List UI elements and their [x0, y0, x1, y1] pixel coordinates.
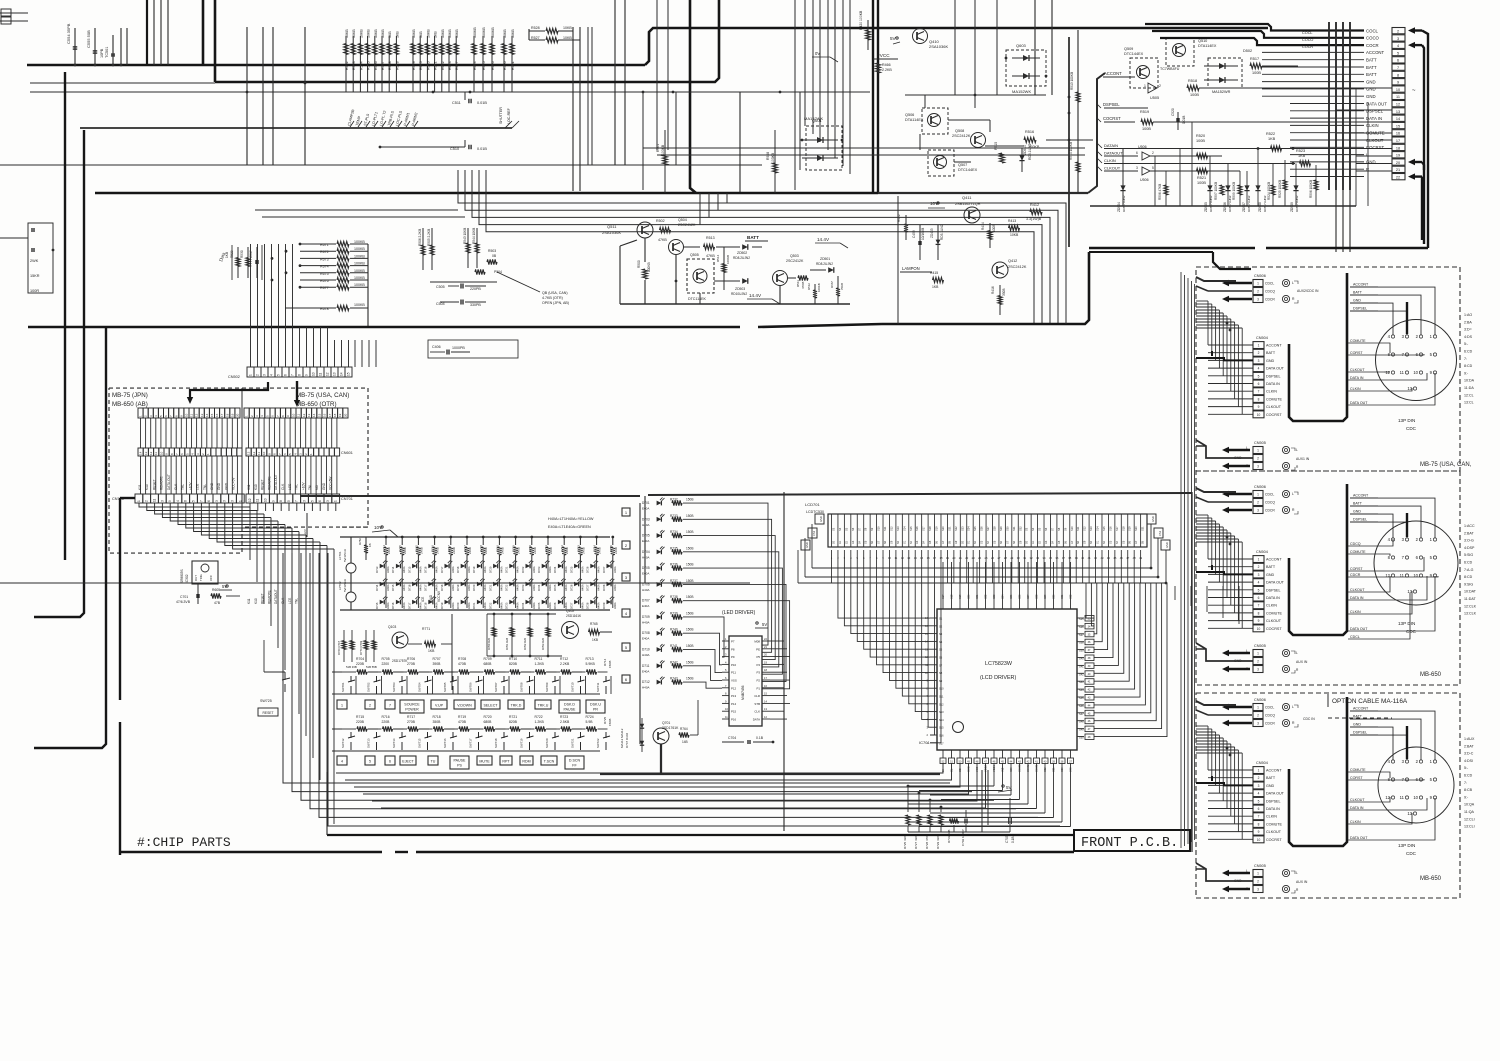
svg-text:R742: R742: [670, 660, 678, 664]
svg-text:H40A: H40A: [642, 686, 650, 690]
svg-text:2: 2: [1257, 660, 1259, 664]
svg-text:3: 3: [1258, 784, 1260, 788]
svg-text:GND: GND: [1366, 79, 1376, 84]
svg-text:S43: S43: [1079, 680, 1084, 684]
svg-text:C505: C505: [436, 285, 445, 289]
svg-text:D722: D722: [488, 602, 492, 609]
svg-text:S27: S27: [1027, 594, 1030, 599]
svg-text:47KB: 47KB: [706, 254, 715, 258]
svg-text:3: 3: [231, 500, 235, 502]
wire thick L x1089: [882, 252, 1089, 324]
svg-text:240B: 240B: [565, 547, 569, 554]
arrow into pin 4: [1413, 44, 1422, 46]
dashed panel border 2: [1196, 471, 1460, 685]
resistor R529 1KB vertical: [237, 247, 239, 278]
svg-text:COCR: COCR: [1366, 43, 1379, 48]
svg-text:COMUTE: COMUTE: [1266, 611, 1283, 615]
svg-text:VCC: VCC: [209, 575, 213, 581]
svg-text:220B: 220B: [382, 720, 391, 724]
svg-text:R626: R626: [491, 61, 495, 70]
svg-text:10: 10: [264, 498, 268, 502]
svg-text:Q411: Q411: [962, 195, 972, 200]
svg-text:CLKIN: CLKIN: [1266, 815, 1277, 819]
svg-text:VSS: VSS: [731, 679, 737, 683]
resistor column R506 R505 2.2KB: [422, 228, 424, 270]
svg-text:3: 3: [326, 500, 330, 502]
svg-text:SELECT: SELECT: [484, 704, 499, 708]
arrow CN505 L: [1227, 449, 1250, 451]
wire sweep bundle y203-237: [458, 170, 1066, 323]
svg-text:7:A-G: 7:A-G: [1464, 568, 1474, 572]
svg-text:DATA OUT: DATA OUT: [1366, 101, 1387, 106]
wire vertical x740: [739, 92, 741, 192]
resistor R596 47KB: [1164, 185, 1168, 195]
svg-text:H40A: H40A: [532, 602, 536, 609]
svg-text:OPTION CABLE MA-116A: OPTION CABLE MA-116A: [1332, 698, 1408, 705]
svg-text:R712: R712: [560, 657, 568, 661]
svg-text:CLKOUT: CLKOUT: [1350, 798, 1365, 802]
svg-text:20: 20: [343, 413, 347, 417]
svg-text:S14: S14: [1096, 526, 1100, 531]
svg-text:150B: 150B: [686, 660, 693, 664]
svg-text:R771: R771: [422, 627, 430, 631]
svg-text:5: 5: [1258, 374, 1260, 378]
svg-text:C510: C510: [450, 147, 459, 151]
row select squares 1-6: [622, 508, 630, 516]
svg-text:D726: D726: [553, 602, 557, 609]
svg-text:S7: S7: [857, 527, 861, 531]
wire DIN top feeds: [1378, 287, 1435, 335]
svg-text:CDC: CDC: [1406, 426, 1417, 431]
svg-text:P14: P14: [731, 702, 737, 706]
svg-text:4:DS: 4:DS: [1464, 335, 1473, 339]
svg-text:H40A=LT1H40A=YELLOW: H40A=LT1H40A=YELLOW: [548, 517, 594, 521]
svg-text:C453: C453: [912, 230, 916, 238]
svg-text:1KB: 1KB: [395, 31, 399, 38]
svg-text:H40A: H40A: [613, 584, 617, 591]
svg-text:Q504: Q504: [678, 218, 687, 222]
svg-text:2: 2: [145, 500, 149, 502]
resistor R422 100KB vertical: [905, 215, 907, 240]
zener ZD510: [1021, 148, 1023, 172]
svg-text:9: 9: [305, 374, 309, 376]
svg-text:350B: 350B: [433, 720, 442, 724]
wire LED bottom rail: [340, 609, 610, 611]
svg-text:1:AO: 1:AO: [1464, 313, 1472, 317]
arrow CN505 L: [1227, 652, 1250, 654]
svg-text:1KB: 1KB: [434, 31, 438, 38]
svg-text:S17: S17: [942, 594, 945, 599]
svg-text:47/6.3VB: 47/6.3VB: [176, 600, 191, 604]
zener ZD501: [810, 269, 826, 271]
svg-text:11: 11: [190, 414, 194, 417]
resistor mid row DATAIN: [1197, 153, 1208, 158]
svg-text:240B: 240B: [403, 547, 407, 554]
svg-text:5V: 5V: [222, 584, 227, 589]
svg-text:R554: R554: [359, 61, 363, 70]
transistor Q410: [913, 29, 928, 44]
svg-text:DSPSEL: DSPSEL: [1353, 731, 1367, 735]
wire Q102 Q103 row: [408, 643, 422, 645]
svg-text:Q509: Q509: [1124, 47, 1133, 51]
svg-text:2:BA: 2:BA: [1464, 320, 1472, 324]
svg-text:EJECT: EJECT: [402, 760, 414, 764]
svg-text:11: 11: [319, 372, 323, 376]
svg-text:R707: R707: [433, 657, 441, 661]
svg-text:5: 5: [287, 500, 291, 502]
svg-text:U2V: U2V: [303, 529, 307, 535]
svg-text:S26: S26: [1019, 594, 1022, 599]
label 5V: [896, 37, 898, 39]
svg-text:1: 1: [1257, 872, 1259, 876]
transistor Q509 DTC144EX: [1130, 58, 1158, 88]
IC IC701 LC75823W chip body: [937, 609, 1077, 750]
svg-text:240B: 240B: [614, 547, 618, 554]
svg-text:S22: S22: [954, 526, 958, 531]
svg-text:S15: S15: [909, 526, 913, 531]
svg-text:U506: U506: [1140, 178, 1149, 182]
connector strip CN601 left: [138, 448, 143, 456]
svg-text:R749: R749: [512, 545, 516, 552]
svg-text:P10: P10: [731, 663, 737, 667]
wire verticals x643-676: [642, 92, 644, 190]
svg-text:TU: TU: [431, 760, 436, 764]
svg-text:9:SIG: 9:SIG: [1464, 582, 1473, 586]
svg-text:P2: P2: [756, 679, 760, 683]
svg-text:R552: R552: [345, 61, 349, 70]
wire thick cable outline: [1289, 484, 1347, 635]
wire CN504 left bundle: [1207, 301, 1209, 345]
svg-text:SW708: SW708: [520, 682, 524, 692]
svg-text:R719: R719: [458, 715, 466, 719]
svg-text:U506: U506: [1138, 145, 1147, 149]
svg-text:C511: C511: [452, 101, 461, 105]
svg-text:R413: R413: [1008, 219, 1016, 223]
svg-text:SW709: SW709: [545, 682, 549, 692]
svg-text:ACCONT: ACCONT: [1266, 558, 1282, 562]
transistor Q411 2SB1102TLQR: [964, 207, 980, 223]
svg-text:7: 7: [1258, 390, 1260, 394]
svg-text:S10: S10: [1070, 526, 1074, 531]
svg-text:BATT: BATT: [1353, 502, 1363, 506]
svg-text:820B: 820B: [509, 720, 518, 724]
svg-text:D703: D703: [642, 517, 650, 521]
transistor Q103: [392, 632, 408, 648]
svg-text:R713: R713: [586, 657, 594, 661]
svg-text:15: 15: [210, 413, 214, 417]
svg-text:LCDTC530: LCDTC530: [806, 510, 824, 514]
svg-text:2: 2: [1258, 776, 1260, 780]
svg-text:MD: MD: [315, 484, 319, 490]
svg-text:MB-650: MB-650: [1420, 876, 1442, 882]
svg-text:H40A: H40A: [386, 584, 390, 591]
svg-text:D701: D701: [642, 501, 650, 505]
svg-text:R622: R622: [441, 61, 445, 70]
svg-text:7: 7: [1397, 66, 1399, 70]
svg-text:11: 11: [257, 452, 261, 455]
capacitor C504 330PB: [460, 300, 462, 305]
svg-text:13: 13: [247, 451, 251, 455]
svg-text:R500: R500: [637, 260, 641, 268]
svg-text:DATA OUT: DATA OUT: [1266, 581, 1285, 585]
svg-text:11:QA: 11:QA: [1464, 810, 1475, 814]
wire thick cable outline: [1289, 697, 1347, 846]
wire panel feed vertical bundle: [1180, 272, 1182, 848]
svg-text:D717: D717: [440, 566, 444, 573]
svg-text:240B: 240B: [598, 547, 602, 554]
svg-text:Q507: Q507: [958, 163, 967, 167]
svg-text:2: 2: [1257, 880, 1259, 884]
svg-text:ZD502: ZD502: [737, 251, 747, 255]
svg-text:47B: 47B: [214, 601, 221, 605]
wire signal bus collector: [1088, 73, 1105, 193]
svg-text:R412: R412: [1030, 203, 1039, 207]
wire GND rails under strip: [812, 567, 1151, 569]
svg-text:R724: R724: [586, 715, 594, 719]
svg-text:5: 5: [1397, 51, 1399, 55]
svg-text:S23: S23: [960, 526, 964, 531]
svg-text:D723: D723: [521, 584, 525, 591]
wire bundle verticals x805-860: [804, 0, 806, 126]
svg-text:CN505: CN505: [1254, 441, 1266, 445]
svg-text:R721: R721: [509, 715, 517, 719]
svg-text:2: 2: [1258, 565, 1260, 569]
svg-text:AUX1 IN: AUX1 IN: [1296, 457, 1310, 461]
svg-text:RD10UJN2: RD10UJN2: [731, 292, 747, 296]
svg-text:15KB: 15KB: [608, 661, 612, 668]
resistor R518 100B: [1187, 85, 1199, 90]
svg-text:H40A: H40A: [642, 523, 650, 527]
svg-text:MB-650 (AB): MB-650 (AB): [112, 401, 148, 408]
svg-text:H40A: H40A: [483, 602, 487, 609]
svg-text:12: 12: [302, 413, 306, 417]
svg-text:C705: C705: [1005, 835, 1009, 843]
svg-text:7: 7: [291, 374, 295, 376]
svg-text:R720: R720: [484, 715, 492, 719]
svg-text:10KB: 10KB: [426, 29, 430, 38]
svg-text:13:CLK: 13:CLK: [1464, 612, 1477, 616]
svg-text:S42: S42: [1079, 672, 1084, 676]
svg-text:103KB: 103KB: [771, 152, 775, 163]
wire U701 right fan: [770, 640, 784, 642]
svg-text:R617: R617: [455, 61, 459, 70]
FRONT PCB box: [1074, 830, 1190, 851]
svg-text:D724: D724: [521, 602, 525, 609]
svg-text:H40A: H40A: [516, 584, 520, 591]
buffer U506 b: [1142, 167, 1150, 175]
resistor R514 100KB vertical: [723, 247, 725, 290]
svg-text:LC75823W: LC75823W: [985, 661, 1013, 667]
svg-text:T.SCN: T.SCN: [544, 760, 555, 764]
wire verticals x615-625: [614, 0, 616, 165]
svg-text:ACCONT: ACCONT: [1104, 71, 1122, 76]
svg-text:R543 10KB: R543 10KB: [463, 228, 467, 244]
resistor R515: [1000, 153, 1005, 163]
svg-text:S16: S16: [939, 734, 944, 738]
svg-text:K10: K10: [145, 484, 149, 490]
svg-text:H40A: H40A: [516, 602, 520, 609]
svg-text:6: 6: [284, 374, 288, 376]
svg-text:CDCL: CDCL: [1265, 282, 1274, 286]
svg-text:390B: 390B: [433, 662, 442, 666]
svg-text:P12: P12: [731, 686, 737, 690]
label 5V U701: [756, 622, 758, 624]
capacitor C704: [722, 741, 744, 743]
svg-text:S8: S8: [864, 527, 868, 531]
wire strip interconnect verticals left: [140, 418, 142, 448]
svg-text:2: 2: [1257, 714, 1259, 718]
svg-text:CN502: CN502: [228, 375, 240, 379]
svg-text:1.2KB: 1.2KB: [535, 720, 545, 724]
svg-text:9: 9: [1258, 830, 1260, 834]
svg-text:10KB: 10KB: [412, 29, 416, 38]
wire DIN top feeds: [1378, 711, 1435, 760]
capacitor C555: [94, 28, 96, 65]
svg-text:S27: S27: [986, 526, 990, 531]
svg-text:R747: R747: [447, 545, 451, 552]
svg-text:H40A: H40A: [418, 566, 422, 573]
resistor R733: [950, 818, 959, 823]
svg-text:11: 11: [256, 498, 260, 502]
resistor R501 100KB vertical: [664, 130, 666, 193]
svg-text:AUX IN: AUX IN: [1296, 880, 1308, 884]
capacitor TC501: [112, 35, 114, 65]
svg-text:S28: S28: [993, 526, 997, 531]
svg-text:GND: GND: [819, 516, 823, 522]
RCA jacks CDC IN: [1282, 279, 1289, 286]
resistor R511 47KB: [788, 277, 796, 279]
svg-text:H40A: H40A: [564, 584, 568, 591]
svg-text:1: 1: [1257, 652, 1259, 656]
svg-text:7: 7: [1258, 815, 1260, 819]
svg-text:CLKIN: CLKIN: [1350, 610, 1361, 614]
svg-text:REMOTE: REMOTE: [160, 476, 164, 490]
svg-text:SW722: SW722: [596, 738, 600, 748]
svg-text:S14: S14: [902, 526, 906, 531]
svg-text:12:CL: 12:CL: [1464, 393, 1474, 397]
svg-text:D709: D709: [642, 615, 650, 619]
svg-text:TNL: TNL: [203, 484, 207, 490]
svg-text:R716: R716: [382, 715, 390, 719]
svg-text:D710: D710: [642, 648, 650, 652]
svg-text:H40A: H40A: [642, 653, 650, 657]
transistor Q510 DTA114EX: [1166, 38, 1194, 66]
svg-text:10V: 10V: [374, 525, 383, 530]
svg-text:100KB: 100KB: [354, 269, 365, 273]
IC302 SR8805S: [192, 561, 218, 584]
svg-text:10/16VB: 10/16VB: [921, 228, 925, 240]
svg-text:2SC2412K: 2SC2412K: [678, 223, 696, 227]
svg-text:R524 100KB: R524 100KB: [1267, 182, 1271, 200]
resistor R516 100KB: [1024, 137, 1036, 142]
capacitor C505 220PB: [460, 284, 462, 289]
svg-text:S14: S14: [939, 718, 944, 722]
svg-text:2SD1757K: 2SD1757K: [392, 659, 408, 663]
svg-text:R525 100KB: R525 100KB: [1278, 180, 1282, 198]
svg-text:R709: R709: [484, 657, 492, 661]
svg-text:R557: R557: [381, 61, 385, 70]
label QB note: [497, 272, 540, 292]
svg-text:1000PB: 1000PB: [452, 346, 465, 350]
zener ZD503: [714, 280, 740, 282]
svg-text:H40A: H40A: [402, 602, 406, 609]
svg-text:240B: 240B: [387, 547, 391, 554]
svg-text:H40A: H40A: [642, 620, 650, 624]
svg-text:2SD1761K: 2SD1761K: [662, 726, 679, 730]
resistor R530 1KB vertical: [247, 247, 249, 278]
svg-text:2SC2412K: 2SC2412K: [786, 259, 804, 263]
svg-text:100B: 100B: [992, 225, 996, 232]
svg-text:14.4V: 14.4V: [749, 293, 762, 298]
svg-text:220PB: 220PB: [470, 287, 481, 291]
svg-text:3:D-C: 3:D-C: [1464, 752, 1474, 756]
svg-text:H40A: H40A: [402, 584, 406, 591]
svg-text:8:CD: 8:CD: [1464, 364, 1473, 368]
svg-text:C701: C701: [180, 595, 188, 599]
svg-text:GND: GND: [1151, 516, 1155, 522]
svg-text:D725: D725: [569, 566, 573, 573]
wire CN505 thick stubs: [1196, 648, 1206, 650]
svg-text:R422: R422: [897, 214, 901, 222]
svg-text:TC7WB4FU: TC7WB4FU: [1160, 67, 1180, 71]
svg-text:D725: D725: [553, 584, 557, 591]
svg-text:DATA OUT: DATA OUT: [1266, 367, 1285, 371]
svg-text:11: 11: [297, 414, 301, 417]
svg-text:19: 19: [230, 413, 234, 417]
svg-text:7:: 7:: [1464, 781, 1467, 785]
svg-text:GND: GND: [1266, 573, 1275, 577]
svg-text:TRK.D: TRK.D: [511, 704, 522, 708]
svg-text:D723: D723: [537, 566, 541, 573]
svg-text:R512: R512: [807, 283, 811, 290]
svg-text:DATA IN: DATA IN: [1350, 806, 1364, 810]
svg-text:12: 12: [1396, 103, 1400, 107]
svg-text:R740: R740: [670, 628, 678, 632]
svg-text:3: 3: [223, 500, 227, 502]
svg-text:S18: S18: [1121, 526, 1125, 531]
DIN connector circle (MB-75 (USA, CAN,): [1376, 320, 1457, 401]
svg-text:CLKOUT: CLKOUT: [1366, 138, 1384, 143]
svg-text:H40A: H40A: [435, 602, 439, 609]
svg-text:150B: 150B: [686, 611, 693, 615]
svg-text:CN506: CN506: [1254, 485, 1266, 489]
svg-text:3: 3: [1257, 668, 1259, 672]
svg-text:S31: S31: [1061, 594, 1064, 599]
svg-text:K11: K11: [138, 484, 142, 490]
wire long horizontal y83: [30, 82, 215, 84]
svg-text:8: 8: [1258, 397, 1260, 401]
svg-text:CLKOUT: CLKOUT: [1350, 368, 1365, 372]
svg-text:CORST: CORST: [1350, 351, 1363, 355]
svg-text:13: 13: [307, 413, 311, 417]
svg-text:S25: S25: [1010, 594, 1013, 599]
svg-text:P5: P5: [756, 655, 760, 659]
svg-text:22: 22: [1396, 176, 1400, 180]
svg-text:DATAOUT: DATAOUT: [1104, 151, 1123, 156]
svg-text:150B: 150B: [686, 628, 693, 632]
svg-text:OUT: OUT: [194, 575, 198, 581]
svg-text:ICE: ICE: [421, 597, 425, 602]
wire vertical pair x573-580: [572, 27, 574, 191]
svg-text:COMUTE: COMUTE: [1266, 397, 1283, 401]
svg-text:D721: D721: [472, 602, 476, 609]
wire thick cable outline: [1289, 273, 1347, 421]
svg-text:R752: R752: [560, 545, 564, 552]
svg-text:4: 4: [270, 374, 274, 376]
svg-text:DATA OUT: DATA OUT: [1350, 627, 1368, 631]
svg-text:S16: S16: [1108, 526, 1112, 531]
svg-text:SW704: SW704: [418, 682, 422, 692]
